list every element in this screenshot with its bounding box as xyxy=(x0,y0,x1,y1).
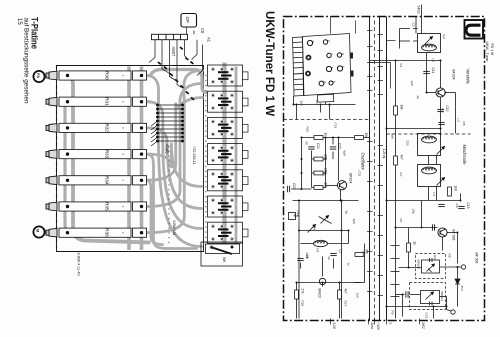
resistor strip R35 xyxy=(59,202,131,211)
svg-text:R34: R34 xyxy=(105,176,110,185)
pcb trace left bus 2 xyxy=(64,102,119,236)
svg-text:C13: C13 xyxy=(466,203,470,209)
svg-text:BF324: BF324 xyxy=(452,70,456,80)
switch block 3 xyxy=(208,117,249,138)
varicap D2 loop xyxy=(421,291,440,306)
svg-text:A1: A1 xyxy=(207,37,212,43)
svg-text:GP: GP xyxy=(185,17,190,23)
svg-text:+12V: +12V xyxy=(376,323,380,331)
PCB board outline xyxy=(57,66,204,252)
switch block 1 xyxy=(208,65,249,86)
resistor strip R34 xyxy=(59,176,131,185)
switch block 5 xyxy=(208,170,249,191)
oscillator coil L4 xyxy=(314,240,328,246)
wire fan diagonals xyxy=(151,121,158,146)
pcb trace vertical A xyxy=(127,67,131,251)
svg-text:auf Bestückungsseite gesehen: auf Bestückungsseite gesehen xyxy=(22,18,29,105)
svg-text:2p: 2p xyxy=(416,96,420,100)
svg-text:1p5: 1p5 xyxy=(410,81,414,86)
svg-text:220: 220 xyxy=(324,154,328,160)
svg-text:L3: L3 xyxy=(432,193,436,197)
svg-text:10n: 10n xyxy=(362,251,366,256)
pcb trace right column vertical xyxy=(222,63,226,249)
svg-text:g: g xyxy=(322,81,326,83)
svg-text:18k: 18k xyxy=(399,105,403,111)
pcb trace top edge xyxy=(151,70,208,93)
schematic frame dash-dot xyxy=(284,17,485,321)
svg-text:L4: L4 xyxy=(316,249,320,253)
bandfilter coil L2 xyxy=(418,134,441,156)
svg-text:U: U xyxy=(460,22,485,38)
WK switch arm xyxy=(209,245,233,254)
transistor T1 xyxy=(436,88,445,97)
varicap D1 loop xyxy=(422,258,440,273)
svg-text:5,6: 5,6 xyxy=(442,35,446,40)
svg-text:f 52.456-11: f 52.456-11 xyxy=(192,147,196,165)
svg-text:C0: C0 xyxy=(200,28,205,34)
resistor strip R32 xyxy=(59,123,131,132)
trimmer L3 xyxy=(437,178,445,186)
svg-text:Vorstufe: Vorstufe xyxy=(466,69,471,85)
svg-text:R24: R24 xyxy=(296,211,300,217)
trimmer cap arrow xyxy=(308,225,316,233)
svg-text:T-Platine: T-Platine xyxy=(29,17,39,49)
svg-text:WK: WK xyxy=(222,257,226,263)
rail stub ticks xyxy=(367,31,383,296)
svg-text:AFC: AFC xyxy=(421,323,425,330)
svg-text:e: e xyxy=(330,67,334,69)
resistor R27 xyxy=(314,183,328,190)
svg-text:9V1: 9V1 xyxy=(460,286,464,292)
svg-text:C2: C2 xyxy=(412,23,416,27)
resistor strip R30 xyxy=(59,71,131,80)
divider dashed right xyxy=(387,133,471,135)
capacitor C14 xyxy=(432,224,434,230)
rail 3 xyxy=(379,17,381,321)
varicap dashed box 2 xyxy=(410,283,446,310)
capacitor C22 xyxy=(330,147,336,149)
capacitor C29 xyxy=(287,186,289,192)
svg-text:1k: 1k xyxy=(323,173,327,177)
svg-text:C1: C1 xyxy=(399,64,403,68)
svg-text:1n: 1n xyxy=(347,263,351,267)
rail 1 xyxy=(369,17,371,321)
svg-text:C15: C15 xyxy=(425,313,429,319)
svg-text:BF 936: BF 936 xyxy=(475,253,479,264)
svg-text:1.Zf inj.: 1.Zf inj. xyxy=(382,149,386,160)
svg-text:1k: 1k xyxy=(324,133,328,137)
M box xyxy=(289,213,297,220)
svg-text:c: c xyxy=(330,53,334,55)
capacitor C7 xyxy=(330,253,336,255)
edge connector pin R33 xyxy=(46,150,57,159)
svg-text:1k: 1k xyxy=(412,242,416,246)
capacitor C6 xyxy=(297,258,303,260)
capacitor C11 xyxy=(423,71,429,73)
varicap circle xyxy=(319,278,325,284)
resistor R14b xyxy=(407,242,417,253)
WK outer box xyxy=(201,242,243,266)
svg-text:220: 220 xyxy=(406,141,410,146)
pcb trace fan bundle xyxy=(147,76,202,247)
capacitor C19b xyxy=(438,204,444,206)
jumper bar at R32 xyxy=(133,123,147,132)
svg-text:15: 15 xyxy=(16,18,22,25)
svg-text:R27: R27 xyxy=(344,301,348,307)
svg-text:C28: C28 xyxy=(305,253,309,259)
capacitor C21 xyxy=(308,147,314,149)
svg-text:6-BW 4.11: 6-BW 4.11 xyxy=(172,221,176,236)
svg-text:d: d xyxy=(340,53,344,55)
capacitor C13 xyxy=(458,206,464,208)
svg-text:C9: C9 xyxy=(455,204,459,208)
switch block 2 xyxy=(208,91,249,112)
svg-text:UKW-Tuner FD 1 W: UKW-Tuner FD 1 W xyxy=(263,11,276,116)
trimmer L2 xyxy=(437,147,445,155)
switch block 6 xyxy=(208,196,249,217)
capacitor C12 xyxy=(437,109,443,111)
test point M circle xyxy=(33,226,44,237)
WK switch box xyxy=(206,244,240,254)
svg-text:R35: R35 xyxy=(105,202,110,211)
svg-text:C11: C11 xyxy=(431,68,435,74)
jumper bar at R35 xyxy=(133,202,147,211)
resistor R4 xyxy=(295,289,305,300)
bottom tick labels xyxy=(331,319,426,331)
section divider dashed xyxy=(284,119,370,121)
switch block 7 xyxy=(208,222,249,243)
svg-text:b: b xyxy=(326,40,330,42)
input coil box L1 xyxy=(418,34,441,53)
transistor T3 oscillator xyxy=(337,181,346,190)
svg-text:2p2: 2p2 xyxy=(300,101,304,106)
connector bar A507 xyxy=(152,34,188,39)
svg-text:C26: C26 xyxy=(313,225,317,231)
resistor R24 xyxy=(314,154,328,161)
svg-text:3k3: 3k3 xyxy=(324,183,328,188)
wire top right corner xyxy=(331,17,396,89)
jumper bar at R33 xyxy=(133,150,147,159)
svg-text:BB104: BB104 xyxy=(417,260,421,270)
tuner connector pins xyxy=(293,34,352,103)
svg-text:A505: A505 xyxy=(165,144,170,155)
connector GP box xyxy=(181,14,197,28)
svg-text:BF 936: BF 936 xyxy=(452,230,456,241)
svg-text:A507: A507 xyxy=(171,47,176,57)
svg-text:Abst.: Abst. xyxy=(370,323,374,330)
svg-text:C29: C29 xyxy=(292,183,296,189)
svg-text:FA: FA xyxy=(36,73,41,78)
svg-text:UKW - Tuner: UKW - Tuner xyxy=(485,42,489,63)
capacitor C30 xyxy=(406,291,408,297)
svg-text:C4: C4 xyxy=(441,109,445,113)
resistor strip R33 xyxy=(59,150,131,159)
capacitor C18 xyxy=(438,122,444,124)
svg-text:C23: C23 xyxy=(358,171,362,177)
svg-text:FD 1 W: FD 1 W xyxy=(490,44,494,57)
circled b xyxy=(451,310,455,314)
svg-text:4k7: 4k7 xyxy=(343,289,347,294)
svg-text:L1: L1 xyxy=(432,59,436,63)
svg-text:40: 40 xyxy=(305,142,309,146)
resistor R6 xyxy=(355,250,369,257)
svg-text:BA102: BA102 xyxy=(318,289,322,299)
svg-text:R20: R20 xyxy=(306,127,310,133)
svg-text:240Ω: 240Ω xyxy=(417,6,421,15)
svg-text:C22: C22 xyxy=(338,143,342,149)
svg-text:3,2V: 3,2V xyxy=(332,323,336,330)
svg-text:R5: R5 xyxy=(462,122,466,126)
edge connector pin R32 xyxy=(46,124,57,133)
svg-text:5p6: 5p6 xyxy=(391,134,395,139)
resistor R23 xyxy=(314,133,328,140)
varicap dashed box 1 xyxy=(416,254,446,279)
svg-text:27k: 27k xyxy=(300,289,304,295)
svg-text:BB104: BB104 xyxy=(440,292,444,302)
test point FA circle xyxy=(33,71,44,82)
circled a xyxy=(461,265,465,269)
bandfilter coil L3 xyxy=(418,165,441,187)
resistor R26 xyxy=(314,168,328,175)
svg-text:18p: 18p xyxy=(412,209,416,214)
rail 4 xyxy=(386,17,388,321)
pcb trace left bus vertical xyxy=(68,76,151,243)
svg-text:R36: R36 xyxy=(105,228,110,237)
solder pads diagonal row xyxy=(157,46,194,100)
resistor R12 xyxy=(394,105,404,116)
svg-text:M: M xyxy=(293,214,297,217)
edge connector pin R36 xyxy=(46,228,57,237)
trimmer C10 xyxy=(425,37,433,45)
resistor R13 xyxy=(394,155,404,166)
svg-text:6p8: 6p8 xyxy=(343,151,347,156)
pad dots column xyxy=(168,75,206,243)
svg-text:1k8: 1k8 xyxy=(453,186,457,191)
svg-text:R32: R32 xyxy=(105,124,110,133)
resistor R16 xyxy=(448,186,458,197)
svg-text:10n: 10n xyxy=(433,255,437,260)
diode ZD xyxy=(455,279,460,284)
svg-text:C19: C19 xyxy=(334,123,338,129)
resistor R5 xyxy=(338,289,348,300)
svg-text:39k: 39k xyxy=(364,133,368,139)
svg-text:C7: C7 xyxy=(399,173,403,177)
wires from connector bar xyxy=(149,31,203,88)
svg-text:R33: R33 xyxy=(105,150,110,159)
trimmer arrow xyxy=(321,216,329,224)
svg-text:a: a xyxy=(311,41,315,43)
svg-text:4p5: 4p5 xyxy=(352,219,356,224)
svg-text:5p: 5p xyxy=(345,211,349,215)
wire M box xyxy=(296,215,300,217)
jumper bar at R30 xyxy=(133,71,147,80)
junction dots xyxy=(293,60,462,308)
edge connector pin R35 xyxy=(46,202,57,211)
edge connector pin R31 xyxy=(46,97,57,106)
pcb trace vertical B xyxy=(140,67,144,251)
U designation box xyxy=(460,20,485,39)
pcb trace right column vertical 2 xyxy=(235,67,238,246)
resistor R25 xyxy=(355,133,369,140)
svg-text:6-BW 4.11-40: 6-BW 4.11-40 xyxy=(77,253,81,276)
svg-text:R8: R8 xyxy=(448,254,452,258)
svg-text:C21: C21 xyxy=(316,143,320,149)
svg-text:R31: R31 xyxy=(105,97,110,106)
svg-text:10n: 10n xyxy=(315,100,319,105)
jumper bar at R31 xyxy=(133,97,147,106)
svg-text:1n5: 1n5 xyxy=(356,293,360,298)
svg-text:BF324: BF324 xyxy=(349,173,353,183)
resistor strip R36 xyxy=(59,228,131,237)
svg-text:0: 0 xyxy=(388,323,392,325)
transistor T2 mixer xyxy=(438,228,447,237)
wire GP to bar xyxy=(186,27,188,34)
svg-text:f: f xyxy=(341,66,345,67)
edge connector pin R30 xyxy=(46,71,57,80)
rail 2 dashed xyxy=(374,21,376,321)
svg-text:C7: C7 xyxy=(338,250,342,254)
jumper bar at R34 xyxy=(133,176,147,185)
jumper bar at R36 xyxy=(133,228,147,237)
svg-text:R9: R9 xyxy=(391,311,395,315)
switch block 4 xyxy=(208,144,249,165)
resistor strip R31 xyxy=(59,97,131,106)
schematic wires xyxy=(291,5,461,319)
edge connector pin R34 xyxy=(46,176,57,185)
svg-text:4k7: 4k7 xyxy=(399,155,403,160)
svg-text:Mischstufe: Mischstufe xyxy=(462,145,467,166)
svg-text:R26: R26 xyxy=(301,301,305,307)
svg-text:Oszillator: Oszillator xyxy=(361,153,366,171)
svg-text:R30: R30 xyxy=(105,71,110,80)
svg-text:22: 22 xyxy=(327,257,331,261)
wire ladder crossing field xyxy=(156,104,183,142)
svg-text:M: M xyxy=(36,229,41,232)
svg-text:h: h xyxy=(332,81,336,83)
svg-text:R7: R7 xyxy=(399,219,403,223)
svg-text:L2: L2 xyxy=(457,119,461,123)
